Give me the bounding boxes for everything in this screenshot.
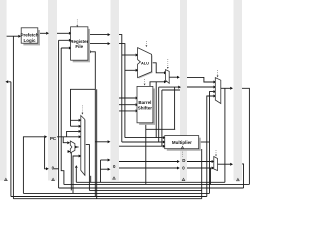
- svg-text:Shifter: Shifter: [138, 106, 153, 111]
- svg-text:Prefetch: Prefetch: [20, 33, 38, 38]
- svg-text:Barrel: Barrel: [138, 100, 151, 105]
- svg-text:Multiplier: Multiplier: [172, 140, 192, 145]
- svg-text:D: D: [182, 158, 185, 163]
- svg-text:Logic: Logic: [24, 38, 36, 43]
- svg-text:PC: PC: [50, 136, 57, 141]
- svg-text:ALU: ALU: [141, 60, 149, 65]
- svg-text:File: File: [75, 44, 83, 49]
